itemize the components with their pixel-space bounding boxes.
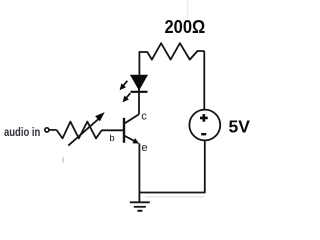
- stray vertical mark above label: [186, 0, 189, 19]
- variable resistor arrow: [68, 112, 104, 146]
- stray mark: [62, 157, 63, 163]
- svg-text:c: c: [141, 110, 147, 122]
- wire: potentiometer to base: [102, 129, 124, 131]
- svg-text:200Ω: 200Ω: [165, 17, 206, 37]
- ground: [130, 202, 150, 211]
- svg-text:b: b: [109, 133, 114, 144]
- input terminal: [45, 128, 49, 132]
- stray gray line below bottom rail: [146, 195, 205, 198]
- wire: resistor right down to source top: [203, 51, 205, 110]
- wire: emitter down to ground junction: [138, 143, 140, 202]
- variable resistor VR1 zigzag: [57, 122, 103, 139]
- wire: resistor left down to LED anode: [138, 51, 140, 75]
- wire: source bottom down to bottom rail: [204, 141, 206, 193]
- LED D1: [131, 75, 148, 92]
- svg-text:audio in: audio in: [4, 125, 40, 139]
- LED emission arrow 2: [123, 93, 131, 102]
- wire: LED cathode down to collector corner: [138, 89, 140, 114]
- svg-text:5V: 5V: [229, 117, 251, 137]
- wire: terminal to potentiometer: [49, 129, 57, 131]
- resistor R1 200Ω: [139, 43, 204, 59]
- transistor Q1 (NPN): [124, 114, 139, 143]
- wire: bottom rail: [139, 192, 205, 194]
- voltage source V1: [189, 110, 220, 141]
- LED emission arrow 1: [120, 81, 128, 90]
- svg-text:e: e: [142, 142, 148, 154]
